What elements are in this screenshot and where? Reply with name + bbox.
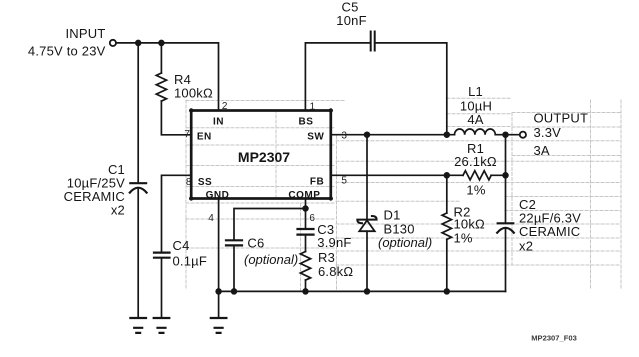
wire C6 to ground rail <box>233 247 235 292</box>
svg-text:3.3V: 3.3V <box>534 125 562 140</box>
value label R3 <box>318 250 353 279</box>
svg-text:x2: x2 <box>519 238 533 253</box>
diode D1 (Schottky B130) cathode wire <box>366 135 368 220</box>
wire C2 to ground rail corner <box>505 230 507 292</box>
svg-text:2: 2 <box>222 101 228 112</box>
op-amp U1 MP2307 IC body <box>189 108 333 200</box>
svg-text:26.1kΩ: 26.1kΩ <box>454 154 497 169</box>
wire GND pin to ground <box>218 199 220 319</box>
junction rail/C6 <box>232 289 237 294</box>
svg-text:1%: 1% <box>466 183 485 198</box>
wire R2 top <box>446 175 448 213</box>
svg-text:7: 7 <box>184 129 190 140</box>
svg-text:(optional): (optional) <box>378 235 432 250</box>
svg-text:x2: x2 <box>111 203 125 218</box>
junction FB/R2 <box>444 173 449 178</box>
diode D1 symbol <box>357 216 376 231</box>
svg-text:6.8kΩ: 6.8kΩ <box>318 264 353 279</box>
svg-text:4: 4 <box>208 213 214 224</box>
wire C3 to R3 <box>305 236 307 252</box>
junction input/R4 <box>159 41 164 46</box>
junction input/C1 <box>136 41 141 46</box>
junction SW/D1 <box>365 132 370 137</box>
svg-text:3.9nF: 3.9nF <box>317 235 351 250</box>
svg-text:3: 3 <box>341 130 347 141</box>
input terminal <box>110 40 116 46</box>
wire R2 to ground rail <box>446 239 448 291</box>
capacitor C3 <box>298 229 314 235</box>
value label C5 <box>336 0 366 28</box>
junction rail/GND <box>216 289 221 294</box>
junction rail/D1 <box>365 289 370 294</box>
svg-text:6: 6 <box>309 213 315 224</box>
value label R4 <box>174 72 213 101</box>
svg-text:L1: L1 <box>468 84 483 99</box>
wire BS pin to C5 <box>305 43 370 110</box>
svg-text:GND: GND <box>206 190 230 201</box>
svg-text:COMP: COMP <box>288 190 320 201</box>
junction COMP/C6 <box>303 206 308 211</box>
svg-text:10kΩ: 10kΩ <box>454 217 486 232</box>
wire C1 branch <box>137 43 139 183</box>
capacitor C6 <box>226 240 242 245</box>
junction rail/R3 <box>303 289 308 294</box>
resistor R3 <box>300 252 310 281</box>
svg-text:R3: R3 <box>318 250 335 265</box>
svg-text:C6: C6 <box>247 235 264 250</box>
output terminal <box>520 132 526 138</box>
svg-text:1: 1 <box>310 102 316 113</box>
wire D1 anode to ground rail <box>366 231 368 291</box>
wire SS pin to C4 <box>162 175 192 252</box>
junction SW/C5 <box>444 132 449 137</box>
svg-text:CERAMIC: CERAMIC <box>519 224 580 239</box>
value label R1 <box>454 141 497 198</box>
value label C3 <box>317 222 351 250</box>
svg-text:SW: SW <box>307 131 324 142</box>
resistor R4 <box>156 43 166 101</box>
value label C6 <box>244 235 298 267</box>
resistor R2 <box>442 213 451 239</box>
value label L1 <box>460 84 492 127</box>
svg-text:MP2307_F03: MP2307_F03 <box>531 334 577 343</box>
svg-text:BS: BS <box>299 117 314 128</box>
ground (GND pin) <box>211 318 227 333</box>
wire R4 to EN pin <box>161 101 191 135</box>
svg-text:EN: EN <box>197 131 212 142</box>
value label C2 <box>519 197 581 253</box>
wire R3 to ground rail <box>305 280 307 291</box>
value label C4 <box>173 238 208 268</box>
svg-text:3A: 3A <box>534 143 550 158</box>
svg-text:SS: SS <box>198 177 212 188</box>
wire FB pin line <box>331 174 463 176</box>
node OUTPUT label <box>534 110 589 157</box>
svg-text:C4: C4 <box>173 238 190 253</box>
svg-text:100kΩ: 100kΩ <box>174 86 213 101</box>
wire C4 to ground <box>161 259 163 318</box>
resistor R1 <box>463 171 491 180</box>
capacitor C1 <box>130 183 147 192</box>
capacitor C5 <box>371 32 375 51</box>
junction rail/R2 <box>444 289 449 294</box>
svg-text:0.1µF: 0.1µF <box>173 253 208 268</box>
capacitor C2 <box>497 223 514 232</box>
svg-text:FB: FB <box>310 176 324 187</box>
wire C1 to ground <box>137 190 139 319</box>
svg-text:INPUT: INPUT <box>66 26 106 41</box>
node INPUT label <box>28 26 106 58</box>
inductor L1 <box>455 129 496 135</box>
wire L1 to output <box>495 134 519 136</box>
ground (C4) <box>154 318 170 333</box>
wire input top rail to IN pin <box>116 43 218 110</box>
junction output/C2 <box>503 132 508 137</box>
wire SW pin to L1 <box>331 134 455 136</box>
wire R1 to output column <box>491 174 505 176</box>
svg-text:IN: IN <box>213 117 224 128</box>
ground (C1) <box>130 318 146 333</box>
svg-text:(optional): (optional) <box>244 252 298 267</box>
wire COMP to C6 <box>234 209 306 241</box>
svg-text:MP2307: MP2307 <box>238 149 290 165</box>
grid guide lines <box>186 98 621 290</box>
junction R1/C2 column <box>503 173 508 178</box>
svg-text:4.75V to 23V: 4.75V to 23V <box>28 44 106 59</box>
value label D1 <box>378 207 432 250</box>
wire C2 top <box>505 135 507 223</box>
svg-text:5: 5 <box>341 175 347 186</box>
ground rail wire <box>219 290 506 292</box>
svg-text:10nF: 10nF <box>336 13 366 28</box>
svg-text:1%: 1% <box>454 231 473 246</box>
value label R2 <box>454 205 486 246</box>
capacitor C4 <box>154 253 170 258</box>
svg-text:OUTPUT: OUTPUT <box>534 110 589 125</box>
svg-text:D1: D1 <box>384 207 401 222</box>
svg-text:4A: 4A <box>467 112 483 127</box>
wire COMP pin down <box>305 199 307 230</box>
wire C5 to SW node <box>375 43 447 134</box>
value label C1 <box>64 162 125 218</box>
